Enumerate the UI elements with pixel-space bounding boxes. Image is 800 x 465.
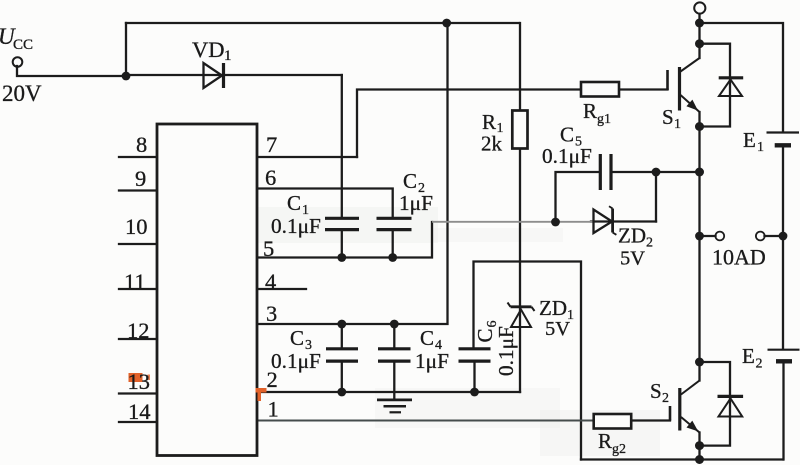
svg-text:C: C bbox=[403, 169, 417, 193]
svg-text:R: R bbox=[482, 110, 496, 134]
svg-text:5V: 5V bbox=[545, 318, 570, 340]
svg-text:8: 8 bbox=[136, 132, 147, 157]
svg-text:5V: 5V bbox=[620, 248, 645, 270]
svg-text:1: 1 bbox=[224, 48, 232, 64]
svg-text:6: 6 bbox=[265, 165, 276, 190]
svg-text:12: 12 bbox=[127, 318, 150, 343]
svg-text:0.1μF: 0.1μF bbox=[542, 144, 592, 168]
svg-text:10AD: 10AD bbox=[712, 245, 766, 270]
svg-text:C: C bbox=[287, 191, 301, 215]
svg-text:C: C bbox=[290, 326, 304, 350]
svg-text:2: 2 bbox=[646, 236, 653, 251]
svg-text:C: C bbox=[420, 326, 434, 350]
svg-text:S: S bbox=[662, 105, 674, 129]
svg-text:9: 9 bbox=[135, 166, 146, 191]
svg-text:1: 1 bbox=[674, 117, 681, 132]
svg-text:2k: 2k bbox=[481, 132, 503, 156]
svg-text:E: E bbox=[743, 128, 756, 152]
svg-text:10: 10 bbox=[125, 214, 148, 239]
svg-text:R: R bbox=[583, 99, 597, 123]
svg-text:7: 7 bbox=[266, 132, 277, 157]
svg-text:1: 1 bbox=[757, 140, 764, 155]
svg-text:CC: CC bbox=[13, 37, 33, 53]
svg-text:11: 11 bbox=[124, 269, 146, 294]
svg-text:ZD: ZD bbox=[539, 296, 567, 320]
svg-text:1μF: 1μF bbox=[399, 191, 433, 215]
svg-text:3: 3 bbox=[266, 301, 277, 326]
svg-text:g2: g2 bbox=[612, 442, 626, 457]
svg-text:C: C bbox=[560, 123, 574, 147]
svg-text:0.1μF: 0.1μF bbox=[271, 349, 321, 373]
svg-text:0.1μF: 0.1μF bbox=[494, 326, 518, 376]
svg-text:4: 4 bbox=[265, 269, 276, 294]
svg-text:20V: 20V bbox=[2, 81, 42, 106]
svg-text:0.1μF: 0.1μF bbox=[271, 214, 321, 238]
svg-text:14: 14 bbox=[128, 399, 151, 424]
svg-text:1μF: 1μF bbox=[415, 349, 449, 373]
svg-text:g1: g1 bbox=[597, 112, 611, 127]
svg-text:2: 2 bbox=[756, 357, 763, 372]
svg-text:VD: VD bbox=[192, 37, 225, 62]
svg-text:R: R bbox=[598, 429, 612, 453]
svg-text:S: S bbox=[650, 379, 662, 403]
svg-text:E: E bbox=[742, 344, 755, 368]
svg-text:5: 5 bbox=[263, 236, 274, 261]
svg-text:2: 2 bbox=[662, 391, 669, 406]
svg-text:ZD: ZD bbox=[618, 224, 646, 248]
svg-text:13: 13 bbox=[128, 369, 151, 394]
svg-text:1: 1 bbox=[268, 397, 279, 422]
